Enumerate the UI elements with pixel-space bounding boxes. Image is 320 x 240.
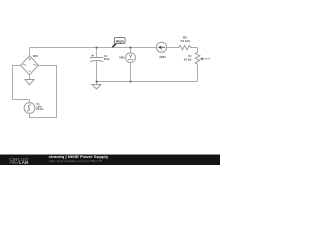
wire BR1 bottom stub <box>29 75 31 80</box>
footer CircuitLab logo <box>9 157 28 165</box>
svg-text:VM1: VM1 <box>119 56 125 60</box>
wire ground stub below bottom rail <box>96 82 98 85</box>
junction node top rail at VM1 <box>130 47 132 49</box>
junction node bottom rail at C1/ground <box>96 81 98 83</box>
wire bottom rail <box>97 81 198 83</box>
wire C1 top stub <box>96 48 98 58</box>
wire VM1 bottom stub <box>130 62 132 81</box>
resistor R2 <box>178 45 193 49</box>
bridge rectifier BR1 <box>21 56 39 75</box>
wire top rail right segment after R2 <box>192 47 198 49</box>
wire BR1 top stub <box>29 48 31 56</box>
ammeter AM1 <box>156 42 166 52</box>
wire V1 bottom to BR1 right <box>30 66 57 118</box>
label C1 value <box>104 54 110 61</box>
footer bar <box>0 155 220 166</box>
svg-text:50 kΩ: 50 kΩ <box>184 58 192 62</box>
ground below C1 column <box>92 85 101 90</box>
svg-text:High: High <box>116 39 124 43</box>
wire C1 bottom to bottom rail <box>96 61 98 81</box>
AC source V1 <box>24 103 35 114</box>
svg-text:10 kΩ: 10 kΩ <box>180 39 190 43</box>
svg-text:BR1: BR1 <box>33 54 38 58</box>
svg-text:V: V <box>129 53 132 58</box>
svg-text:60 Hz: 60 Hz <box>36 107 44 111</box>
wire BR1 left to V1 top <box>13 66 30 103</box>
wire R1 top stub <box>197 48 199 52</box>
R1 wiper arrow <box>203 58 211 60</box>
wire VM1 top stub <box>130 48 132 53</box>
voltmeter VM1 <box>126 53 136 63</box>
label V1 value <box>36 102 44 111</box>
svg-text:http://circuitlab.com/c/7fkz75: http://circuitlab.com/c/7fkz75 <box>49 159 103 163</box>
capacitor C1 <box>90 55 103 62</box>
svg-text:68 µF: 68 µF <box>104 57 110 61</box>
potentiometer R1 <box>195 51 200 65</box>
svg-text:LAB: LAB <box>19 160 29 165</box>
junction node top rail at C1 <box>96 47 98 49</box>
label R2 value <box>180 35 190 43</box>
net flag High <box>112 37 125 47</box>
wire R1 bottom stub <box>197 65 199 81</box>
ground below BR1 <box>25 80 34 85</box>
junction node bottom rail at VM1 <box>130 81 132 83</box>
label R1 value <box>184 54 192 61</box>
svg-text:AM1: AM1 <box>159 55 166 59</box>
wire top rail left segment <box>30 47 178 49</box>
